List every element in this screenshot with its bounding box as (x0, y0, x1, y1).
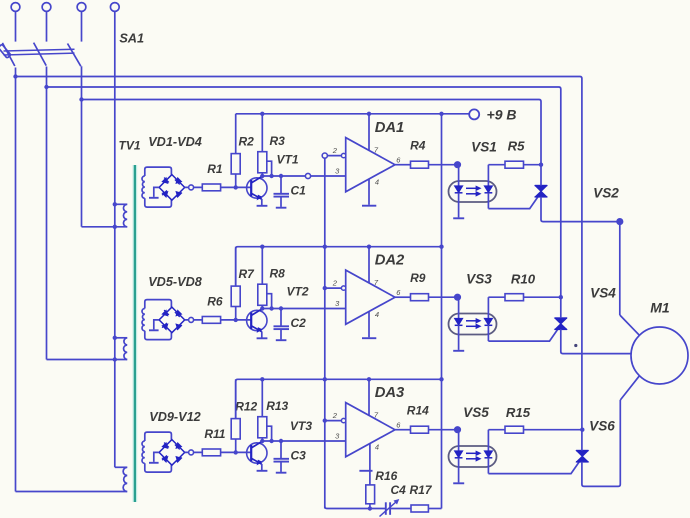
wire secondary 1 bottom to bridge (145, 198, 172, 207)
optocoupler VS5 body (449, 446, 497, 467)
junction primary1 bottom / neutral (113, 225, 117, 229)
junction primary1 top / neutral (113, 202, 117, 206)
node output row 2 (455, 294, 461, 300)
triac VS2 (535, 185, 547, 187)
svg-text:VD1-VD4: VD1-VD4 (148, 135, 202, 149)
wire motor node down to motor (619, 225, 621, 315)
junction rail row 3 / pin2 bus (323, 377, 327, 381)
ground at bridge VD5-VD8 left corner (154, 320, 159, 330)
wire emitter VT1 down (261, 199, 263, 205)
svg-text:R11: R11 (204, 427, 225, 441)
svg-text:2: 2 (332, 279, 338, 288)
wire primary 2 bottom to phase B (47, 359, 128, 361)
resistor R5 (505, 161, 524, 168)
bridge diode on edge 1 of VD5-VD8 (162, 310, 167, 315)
bridge diode on edge 1 of VD1-VD4 (162, 178, 167, 183)
resistor R8 (258, 284, 267, 305)
node bridge VD9-V12 output (189, 450, 194, 455)
optocoupler VS3 LED (458, 297, 460, 318)
resistor R13 (258, 417, 267, 438)
svg-text:R8: R8 (270, 266, 286, 280)
svg-text:VT1: VT1 (276, 152, 298, 166)
svg-text:VS6: VS6 (589, 419, 615, 434)
transformer TV1 primary winding 3 (115, 466, 127, 468)
junction C1 / pin3 wire (279, 174, 283, 178)
svg-text:2: 2 (332, 411, 338, 420)
svg-text:VS3: VS3 (466, 272, 492, 287)
svg-text:R6: R6 (207, 295, 223, 309)
bridge diode on edge 4 of VD9-V12 (162, 457, 167, 462)
bridge rectifier VD9-V12 diamond (159, 440, 185, 466)
svg-text:R5: R5 (508, 139, 526, 154)
optocoupler VS1 body (449, 181, 497, 202)
input terminal X4 (110, 3, 119, 12)
node pin2 bus top (322, 153, 327, 158)
bridge diode on edge 2 of VD5-VD8 (176, 310, 181, 315)
wire secondary 2 top to bridge (145, 300, 172, 309)
switch SA1 blade pole 1 (2, 43, 14, 66)
wire phase B horizontal (47, 87, 561, 89)
op-amp DA3 pin 7 lead (368, 379, 370, 416)
resistor R3 (258, 152, 267, 173)
junction tap R8 / collector wire (269, 306, 273, 310)
resistor R2 (231, 154, 240, 174)
ground at C1 (276, 207, 287, 209)
wire bridge VD9-V12 output (185, 451, 203, 453)
resistor R4 (411, 161, 429, 168)
transistor VT1 (247, 178, 267, 198)
optocoupler VS3 body (449, 314, 497, 335)
junction tap R3 / collector wire (269, 174, 273, 178)
junction C3 / pin3 wire (279, 439, 283, 443)
svg-text:4: 4 (375, 310, 379, 319)
transformer TV1 core (133, 165, 138, 502)
wire R15 to phase line (524, 429, 583, 431)
optocoupler VS3 coupling arrows (466, 320, 477, 322)
junction R3 top / supply rail (260, 112, 264, 116)
svg-text:R12: R12 (235, 399, 257, 413)
svg-text:VT2: VT2 (286, 285, 308, 299)
resistor R16 (366, 485, 375, 504)
input terminal X1 (11, 3, 20, 12)
resistor R14 (411, 426, 429, 433)
wire VS2 to motor node (541, 197, 617, 222)
junction R7 bottom / base wire (234, 318, 238, 322)
wire VS1 to triac gate (488, 197, 537, 209)
ground at VS1 LED (453, 217, 464, 219)
svg-text:R2: R2 (239, 134, 255, 148)
op-amp DA1 pin 2 input (325, 155, 344, 157)
junction pole3/phase C (79, 97, 83, 101)
wire phase C horizontal (82, 100, 542, 102)
svg-text:R3: R3 (270, 134, 286, 148)
wire +9V supply rail (236, 113, 470, 115)
wire R11 to base of VT3 (221, 451, 252, 453)
junction R2 bottom / base wire (234, 185, 238, 189)
svg-text:C3: C3 (291, 448, 307, 462)
svg-text:VD5-VD8: VD5-VD8 (148, 275, 203, 289)
wire phase A horizontal (16, 77, 582, 79)
junction R8 top / supply rail (260, 245, 264, 249)
optocoupler VS1 coupling arrows (466, 187, 477, 189)
svg-text:R16: R16 (375, 469, 397, 483)
wire supply rail row 3 (236, 379, 442, 418)
transformer TV1 primary winding 2 (115, 337, 127, 339)
svg-text:DA2: DA2 (375, 253, 405, 269)
switch SA1 blade pole 3 (68, 44, 81, 67)
wire supply rail row 2 (236, 247, 442, 286)
transistor VT3 (247, 443, 267, 463)
triac VS4 (555, 317, 567, 319)
op-amp DA1 pin 4 lead and ground (368, 179, 370, 205)
input terminal X3 (77, 3, 86, 12)
wire pole3 vertical (81, 66, 83, 227)
bridge diode on edge 4 of VD5-VD8 (162, 324, 167, 329)
svg-text:R10: R10 (511, 272, 536, 287)
svg-text:R1: R1 (207, 162, 223, 176)
wire phase B vertical to VS4 (560, 89, 562, 318)
svg-text:R9: R9 (410, 271, 426, 285)
wire diagonal from motor bottom (620, 376, 639, 400)
svg-text:4: 4 (375, 442, 379, 451)
ground at C2 (276, 339, 287, 341)
switch SA1 handle (0, 44, 11, 58)
node output row 1 (455, 162, 461, 168)
junction primary2 bottom / neutral (113, 357, 117, 361)
wire R1 to base of VT1 (221, 186, 252, 188)
bridge diode on edge 2 of VD1-VD4 (176, 178, 181, 183)
op-amp DA2 pin 4 lead and ground (368, 312, 370, 338)
svg-text:VS5: VS5 (463, 405, 489, 420)
transformer secondary winding 3 (142, 441, 145, 463)
wire pole2 vertical (46, 67, 48, 360)
junction R13 top / supply rail (260, 377, 264, 381)
svg-text:C2: C2 (291, 316, 307, 330)
wire photodetector to R5 (488, 164, 505, 166)
svg-text:R14: R14 (407, 404, 429, 418)
node on pin 3 wire of DA1 (305, 173, 310, 178)
resistor R7 (231, 286, 240, 306)
wire right bus vertical (441, 114, 443, 509)
wire collector VT1 to op-amp pin 3 (262, 175, 345, 177)
optocoupler VS5 coupling arrows (466, 452, 477, 454)
junction right bus / +9V rail (439, 112, 443, 116)
wire R4 to node (429, 164, 458, 166)
resistor R12 (231, 419, 240, 439)
tick bar on DA3 pin4 (359, 470, 372, 472)
switch SA1 linkage bar (4, 49, 75, 51)
stray dot (574, 344, 577, 347)
resistor R17 (411, 505, 428, 512)
bridge diode on edge 2 of VD9-V12 (176, 443, 181, 448)
op-amp DA2 pin 2 input (325, 287, 344, 289)
svg-text:VS1: VS1 (471, 140, 497, 155)
trimmer tap of R13 (267, 426, 272, 441)
bridge diode on edge 1 of VD9-V12 (162, 443, 167, 448)
transformer secondary winding 1 (142, 176, 145, 198)
resistor R15 (505, 426, 524, 433)
switch SA1 blade pole 2 (34, 43, 47, 66)
wire bridge VD5-VD8 output (185, 319, 203, 321)
junction R15 / phase vertical (580, 428, 584, 432)
junction pin2 DA3 / bus (323, 418, 327, 422)
resistor R9 (411, 294, 429, 301)
wire bottom feedback rail (325, 507, 386, 509)
svg-text:VS4: VS4 (590, 286, 616, 301)
junction R10 / phase vertical (559, 295, 563, 299)
junction tap R13 / collector wire (269, 439, 273, 443)
junction pole1/phase A (13, 74, 17, 78)
transformer secondary winding 2 (142, 309, 145, 331)
ground at bridge VD1-VD4 left corner (154, 187, 159, 197)
svg-text:SA1: SA1 (119, 32, 144, 46)
svg-text:C1: C1 (291, 183, 307, 197)
junction R12 bottom / base wire (234, 450, 238, 454)
junction collector VT1 / R3 (260, 174, 264, 178)
node output row 3 (455, 427, 461, 433)
svg-text:R13: R13 (266, 399, 288, 413)
svg-text:+9 В: +9 В (487, 107, 517, 123)
op-amp DA3 triangle (346, 403, 395, 457)
resistor R11 (202, 449, 220, 456)
bridge diode on edge 4 of VD1-VD4 (162, 192, 167, 197)
inverting input circle DA2 (341, 286, 345, 290)
bridge rectifier VD5-VD8 diamond (159, 307, 185, 333)
bridge diode on edge 3 of VD1-VD4 (176, 192, 181, 197)
bridge rectifier VD1-VD4 diamond (159, 175, 185, 201)
optocoupler VS5 LED (458, 430, 460, 451)
capacitor C1 (280, 176, 282, 193)
wire R5 to phase line (524, 164, 542, 166)
trimmer tap of R8 (267, 294, 272, 309)
wire bridge VD1-VD4 output (185, 186, 203, 188)
svg-text:C4: C4 (391, 483, 407, 497)
capacitor C2 (280, 309, 282, 326)
svg-text:VD9-V12: VD9-V12 (149, 410, 200, 424)
wire secondary 2 bottom to bridge (145, 331, 172, 340)
resistor R1 (202, 184, 220, 191)
wire DA3 output to R14 (395, 429, 411, 431)
junction R5 / phase vertical (539, 163, 543, 167)
terminal +9V (469, 109, 479, 119)
inverting input circle DA1 (341, 153, 345, 157)
wire R9 to node (429, 296, 458, 298)
wire secondary 3 top to bridge (145, 432, 172, 441)
wire photodetector to R15 (488, 429, 505, 431)
optocoupler VS1 photodetector (487, 165, 489, 186)
ground at VS5 LED (453, 482, 464, 484)
wire photodetector to R10 (488, 296, 505, 298)
svg-text:M1: M1 (650, 300, 670, 316)
wire pin-2 bus vertical (324, 158, 326, 508)
optocoupler VS3 photodetector (487, 297, 489, 318)
junction C2 / pin3 wire (279, 306, 283, 310)
wire collector VT3 to op-amp pin 3 (262, 440, 345, 442)
wire neutral vertical from X4 (114, 11, 116, 467)
svg-text:2: 2 (332, 146, 338, 155)
trimmer tap of R3 (267, 161, 272, 176)
resistor R10 (505, 294, 524, 301)
wire DA2 output to R9 (395, 296, 411, 298)
svg-text:VS2: VS2 (593, 186, 619, 201)
svg-text:R4: R4 (410, 139, 426, 153)
wire R6 to base of VT2 (221, 319, 252, 321)
wire collector VT2 to op-amp pin 3 (262, 308, 345, 310)
motor M1 (631, 327, 688, 384)
op-amp DA3 pin 4 lead (369, 444, 371, 485)
svg-text:VT3: VT3 (290, 419, 312, 433)
wire DA1 output to R4 (395, 164, 411, 166)
wire R10 to phase line (524, 296, 561, 298)
wire emitter VT3 down (261, 464, 263, 470)
node bridge VD1-VD4 output (189, 185, 194, 190)
ground at C3 (276, 472, 287, 474)
svg-text:R15: R15 (506, 405, 531, 420)
wire pole1 vertical down-left (15, 68, 17, 492)
wire primary 3 bottom to phase A (16, 491, 128, 493)
wire R14 to node (429, 429, 458, 431)
bridge diode on edge 3 of VD9-V12 (176, 457, 181, 462)
wire VS4 to motor (561, 329, 631, 353)
input terminal X2 (42, 3, 51, 12)
resistor R6 (202, 317, 220, 324)
transistor VT2 (247, 310, 267, 330)
svg-text:4: 4 (375, 177, 379, 186)
ground at bridge VD9-V12 left corner (154, 452, 159, 462)
optocoupler VS5 photodetector (487, 430, 489, 451)
junction rail row 2 / pin2 bus (323, 245, 327, 249)
svg-text:R17: R17 (409, 483, 432, 497)
wire emitter VT2 down (261, 332, 263, 338)
node motor phase C (617, 219, 623, 225)
bridge diode on edge 3 of VD5-VD8 (176, 324, 181, 329)
capacitor C4 (trimmer) (385, 502, 387, 515)
optocoupler VS1 LED (458, 165, 460, 186)
inverting input circle DA3 (341, 418, 345, 422)
wire secondary 3 bottom to bridge (145, 463, 172, 472)
junction collector VT2 / R8 (260, 306, 264, 310)
junction rail row 2 / right bus (439, 245, 443, 249)
ground at emitter VT3 (257, 470, 268, 472)
node bridge VD5-VD8 output (189, 317, 194, 322)
wire VS5 to triac gate (488, 462, 579, 474)
junction rail row 3 / right bus (439, 377, 443, 381)
ground at emitter VT1 (257, 205, 268, 207)
svg-text:R7: R7 (239, 267, 256, 281)
wire VS6 to motor bottom (582, 400, 620, 486)
ground at emitter VT2 (257, 337, 268, 339)
svg-text:DA3: DA3 (375, 385, 405, 401)
capacitor C3 (280, 441, 282, 458)
wire R16 to bottom rail (369, 504, 371, 509)
triac VS6 (576, 450, 588, 452)
wire primary 1 bottom to phase C (82, 226, 128, 228)
op-amp DA2 triangle (346, 270, 395, 324)
wire phase A vertical to VS6 (581, 79, 583, 451)
wire VS3 to triac gate (488, 330, 557, 342)
junction collector VT3 / R13 (260, 439, 264, 443)
svg-text:DA1: DA1 (375, 120, 405, 136)
op-amp DA1 pin 7 lead (368, 114, 370, 151)
wire secondary 1 top to bridge (145, 167, 172, 176)
wire phase C vertical to VS2 (540, 102, 542, 186)
op-amp DA2 pin 7 lead (368, 247, 370, 284)
svg-text:TV1: TV1 (118, 139, 140, 153)
ground at VS3 LED (453, 350, 464, 352)
junction pin2 DA2 / bus (323, 286, 327, 290)
wire diagonal to motor top (620, 315, 640, 335)
junction R16 / bottom rail (368, 506, 372, 510)
junction pole2/phase B (44, 85, 48, 89)
transformer TV1 primary winding 1 (115, 203, 127, 205)
op-amp DA1 triangle (346, 138, 395, 192)
junction primary2 top / neutral (113, 336, 117, 340)
op-amp DA3 pin 2 input (325, 420, 344, 422)
